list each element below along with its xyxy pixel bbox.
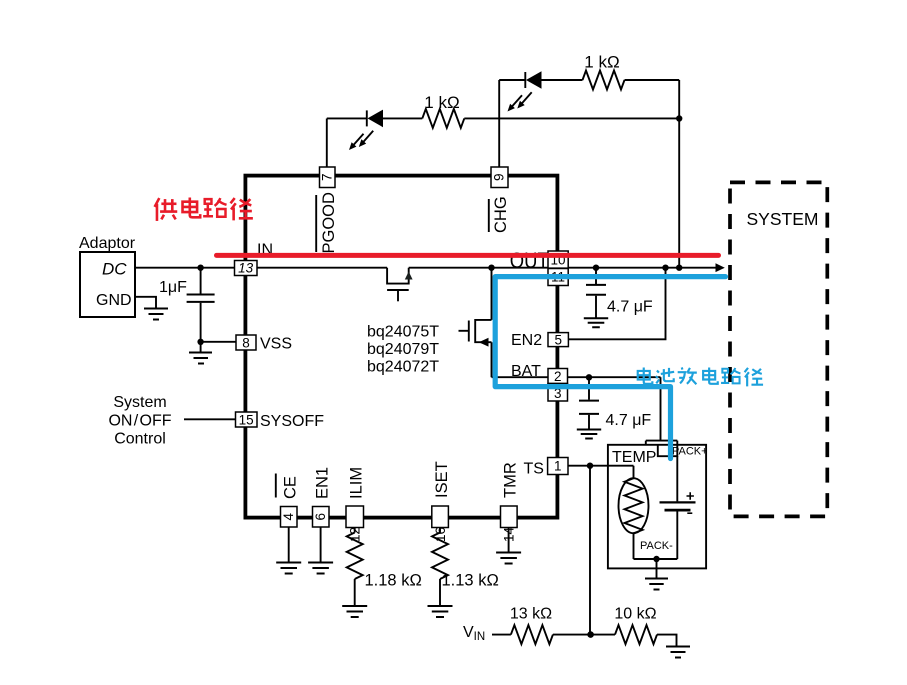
label IN [257, 242, 273, 259]
svg-text:ISET: ISET [433, 461, 451, 498]
label TEMP [612, 449, 656, 466]
junction rail-OUT [676, 265, 682, 271]
label R3 13 kOhm [510, 606, 552, 623]
label GND [96, 292, 132, 309]
svg-text:Control: Control [114, 431, 166, 448]
transistor Q1 (power-path FET) [387, 268, 413, 302]
svg-text:7: 7 [320, 173, 335, 181]
pin 6 (EN1) [313, 507, 330, 528]
label TMR [502, 462, 520, 498]
svg-text:14: 14 [502, 527, 517, 543]
resistor R6 1.13k (ISET) [432, 528, 448, 606]
resistor R4 10k [615, 625, 657, 644]
junction C2-OUT [593, 265, 599, 271]
capacitor C1 1uF [187, 268, 215, 352]
red power path line [217, 253, 719, 258]
wire C1 to VSS pin8 [201, 341, 236, 343]
wire BAT pin2 left and right [492, 376, 661, 378]
label ISET [433, 461, 451, 498]
junction EN2-OUT [662, 265, 668, 271]
svg-text:6: 6 [313, 513, 328, 521]
ground adaptor [144, 309, 168, 320]
wire LED right rail down to OUT [678, 80, 680, 268]
pin 2 (BAT) [548, 369, 568, 384]
svg-text:16: 16 [433, 527, 448, 542]
junction OUT-Q2 [488, 265, 494, 271]
label bq24075T bq24079T bq24072T [367, 324, 439, 376]
ground TMR [496, 553, 521, 564]
svg-text:OUT: OUT [510, 248, 549, 273]
svg-text:PACK+: PACK+ [672, 446, 708, 458]
label Adaptor [79, 235, 136, 252]
label CE (overline) [276, 474, 300, 500]
wire OUT down to BAT (through Q2) [491, 268, 493, 378]
wire PGOOD LED rail [327, 117, 679, 119]
junction LED rail [676, 115, 682, 121]
svg-text:System: System [113, 394, 166, 411]
thermistor RT [619, 478, 649, 559]
wire TS pin1 to pack and down [568, 466, 634, 479]
LED D1 (PGOOD) [367, 110, 383, 128]
pin 5 (EN2) [548, 333, 568, 348]
pin 8 (VSS) [236, 335, 256, 350]
svg-text:8: 8 [242, 335, 250, 350]
label C2 4.7uF [607, 299, 653, 316]
svg-text:1 kΩ: 1 kΩ [424, 93, 459, 112]
svg-text:CHG: CHG [492, 196, 510, 233]
label System ON/OFF Control [108, 394, 171, 448]
junction C1 top [197, 265, 203, 271]
wire VIN to R13k [492, 634, 511, 636]
battery pack box [608, 445, 706, 569]
svg-text:TS: TS [524, 461, 544, 478]
svg-text:4.7 μF: 4.7 μF [607, 299, 653, 316]
wire pin7 riser [326, 119, 328, 168]
wire Q1 to OUT rail [409, 267, 716, 269]
svg-text:Adaptor: Adaptor [79, 235, 136, 252]
svg-text:1μF: 1μF [159, 279, 187, 296]
svg-text:15: 15 [239, 412, 254, 427]
ground R6 [428, 606, 453, 617]
svg-text:12: 12 [348, 527, 363, 542]
label C1 1uF [159, 279, 187, 296]
label EN2 [511, 332, 542, 349]
wire CHG LED rail [499, 79, 679, 81]
pin 15 (SYSOFF) [236, 412, 258, 427]
pin 16 (ISET) [432, 506, 449, 542]
label SYSOFF [260, 413, 324, 430]
ground R5 [342, 606, 367, 617]
svg-text:SYSTEM: SYSTEM [747, 209, 819, 229]
stub CE pin4 to ground [288, 527, 290, 562]
label EN1 [314, 467, 332, 499]
LED D1 emission arrows [349, 131, 373, 150]
svg-text:TMR: TMR [502, 462, 520, 498]
adaptor box [80, 252, 135, 317]
pin 9 (CHG) [491, 167, 508, 188]
wire adaptor DC to IN pin13 and to MOSFET Q1 [135, 267, 387, 269]
label TS [524, 461, 544, 478]
svg-text:4.7 μF: 4.7 μF [606, 412, 652, 429]
label R6 1.13 kOhm [442, 572, 499, 590]
svg-text:EN2: EN2 [511, 332, 542, 349]
svg-text:EN1: EN1 [314, 467, 332, 499]
svg-text:BAT: BAT [511, 363, 541, 380]
battery BT1 [660, 456, 696, 559]
junction pack gnd [653, 556, 659, 562]
svg-text:GND: GND [96, 292, 132, 309]
pin 3 [548, 384, 568, 402]
svg-text:9: 9 [492, 173, 507, 181]
pin 1 (TS) [548, 458, 568, 475]
junction divider [587, 631, 594, 638]
label VIN [463, 624, 485, 643]
SYSTEM dashed box [730, 182, 827, 516]
svg-text:1 kΩ: 1 kΩ [584, 53, 619, 72]
LED D2 (CHG) [525, 71, 541, 89]
LED D2 emission arrows [508, 92, 532, 111]
blue battery discharge path [495, 277, 725, 459]
svg-text:TEMP: TEMP [612, 449, 656, 466]
pin 14 (TMR) [501, 506, 518, 542]
label R2 1 kOhm [584, 53, 619, 72]
pin 12 (ILIM) [346, 506, 364, 542]
label R1 1 kOhm [424, 93, 459, 112]
svg-text:ON / OFF: ON / OFF [108, 412, 171, 429]
svg-text:PACK-: PACK- [640, 540, 673, 552]
svg-text:ILIM: ILIM [348, 467, 366, 499]
label CHG (overline) [489, 196, 510, 233]
ground C1 [189, 353, 212, 364]
ground C2 [584, 318, 608, 327]
svg-text:1.13 kΩ: 1.13 kΩ [442, 572, 499, 590]
svg-text:DC: DC [102, 260, 127, 279]
wire control to SYSOFF pin15 [184, 418, 236, 420]
svg-text:1: 1 [554, 459, 562, 474]
svg-text:13: 13 [238, 261, 254, 276]
ground C3 [577, 430, 601, 439]
junction C1 bottom / VSS [197, 339, 203, 345]
IC U1 bq24075T outline [245, 176, 557, 518]
svg-text:5: 5 [554, 333, 562, 348]
ground R4 [666, 647, 690, 658]
svg-text:VIN: VIN [463, 624, 485, 643]
red label 供电路径 [155, 198, 253, 221]
svg-text:bq24079T: bq24079T [367, 341, 439, 358]
svg-text:2: 2 [554, 369, 562, 384]
wire between divider resistors [553, 634, 615, 636]
label PACK+ [672, 446, 708, 458]
svg-text:13 kΩ: 13 kΩ [510, 606, 552, 623]
ground pack [645, 559, 668, 590]
resistor R5 1.18k (ILIM) [347, 528, 363, 606]
pin 7 (PGOOD) [320, 167, 336, 188]
stub EN1 pin6 to ground [320, 527, 322, 562]
capacitor C2 4.7uF (OUT) [586, 268, 606, 318]
svg-text:4: 4 [281, 512, 296, 520]
label SYSTEM [747, 209, 819, 229]
capacitor C3 4.7uF (BAT) [579, 377, 599, 429]
wire BAT down to PACK+ [660, 377, 662, 440]
resistor R1 1k (PGOOD) [422, 109, 464, 128]
blue label 电池放电路径 [638, 367, 763, 386]
wire R4 to ground [657, 635, 677, 646]
svg-text:1.18 kΩ: 1.18 kΩ [365, 572, 422, 590]
transistor Q2 (battery FET) [459, 320, 492, 347]
label R5 1.18 kOhm [365, 572, 422, 590]
label C3 4.7uF [606, 412, 652, 429]
wire pin9 riser [498, 80, 500, 167]
stub TMR pin14 to ground [508, 528, 510, 553]
PACK+ tab [646, 441, 678, 457]
label R4 10 kOhm [614, 606, 656, 623]
svg-text:VSS: VSS [260, 336, 292, 353]
arrow into SYSTEM [716, 263, 725, 272]
pin 13 (IN) [235, 261, 258, 276]
ground CE [276, 563, 301, 574]
wire EN2 riser [568, 268, 665, 340]
label DC [102, 260, 127, 279]
label PGOOD (overline) [316, 192, 338, 254]
wire adaptor GND to ground [135, 297, 156, 308]
junction TS [587, 463, 593, 469]
label ILIM [348, 467, 366, 499]
ground EN1 [308, 563, 333, 574]
label PACK- [640, 540, 673, 552]
svg-text:PGOOD: PGOOD [320, 192, 338, 254]
svg-text:10 kΩ: 10 kΩ [614, 606, 656, 623]
svg-text:bq24075T: bq24075T [367, 324, 439, 341]
svg-text:CE: CE [282, 476, 300, 499]
resistor R2 1k (CHG) [583, 71, 625, 90]
pin 4 (CE) [281, 507, 298, 528]
resistor R3 13k [511, 625, 553, 644]
wire pack bottom [634, 558, 678, 560]
label VSS [260, 336, 292, 353]
label OUT [510, 248, 549, 273]
svg-text:SYSOFF: SYSOFF [260, 413, 324, 430]
pin 10/11 (OUT) [548, 251, 568, 286]
wire TS node down to divider [589, 466, 591, 635]
label BAT [511, 363, 541, 380]
svg-text:bq24072T: bq24072T [367, 359, 439, 376]
junction C3-BAT [586, 374, 592, 380]
